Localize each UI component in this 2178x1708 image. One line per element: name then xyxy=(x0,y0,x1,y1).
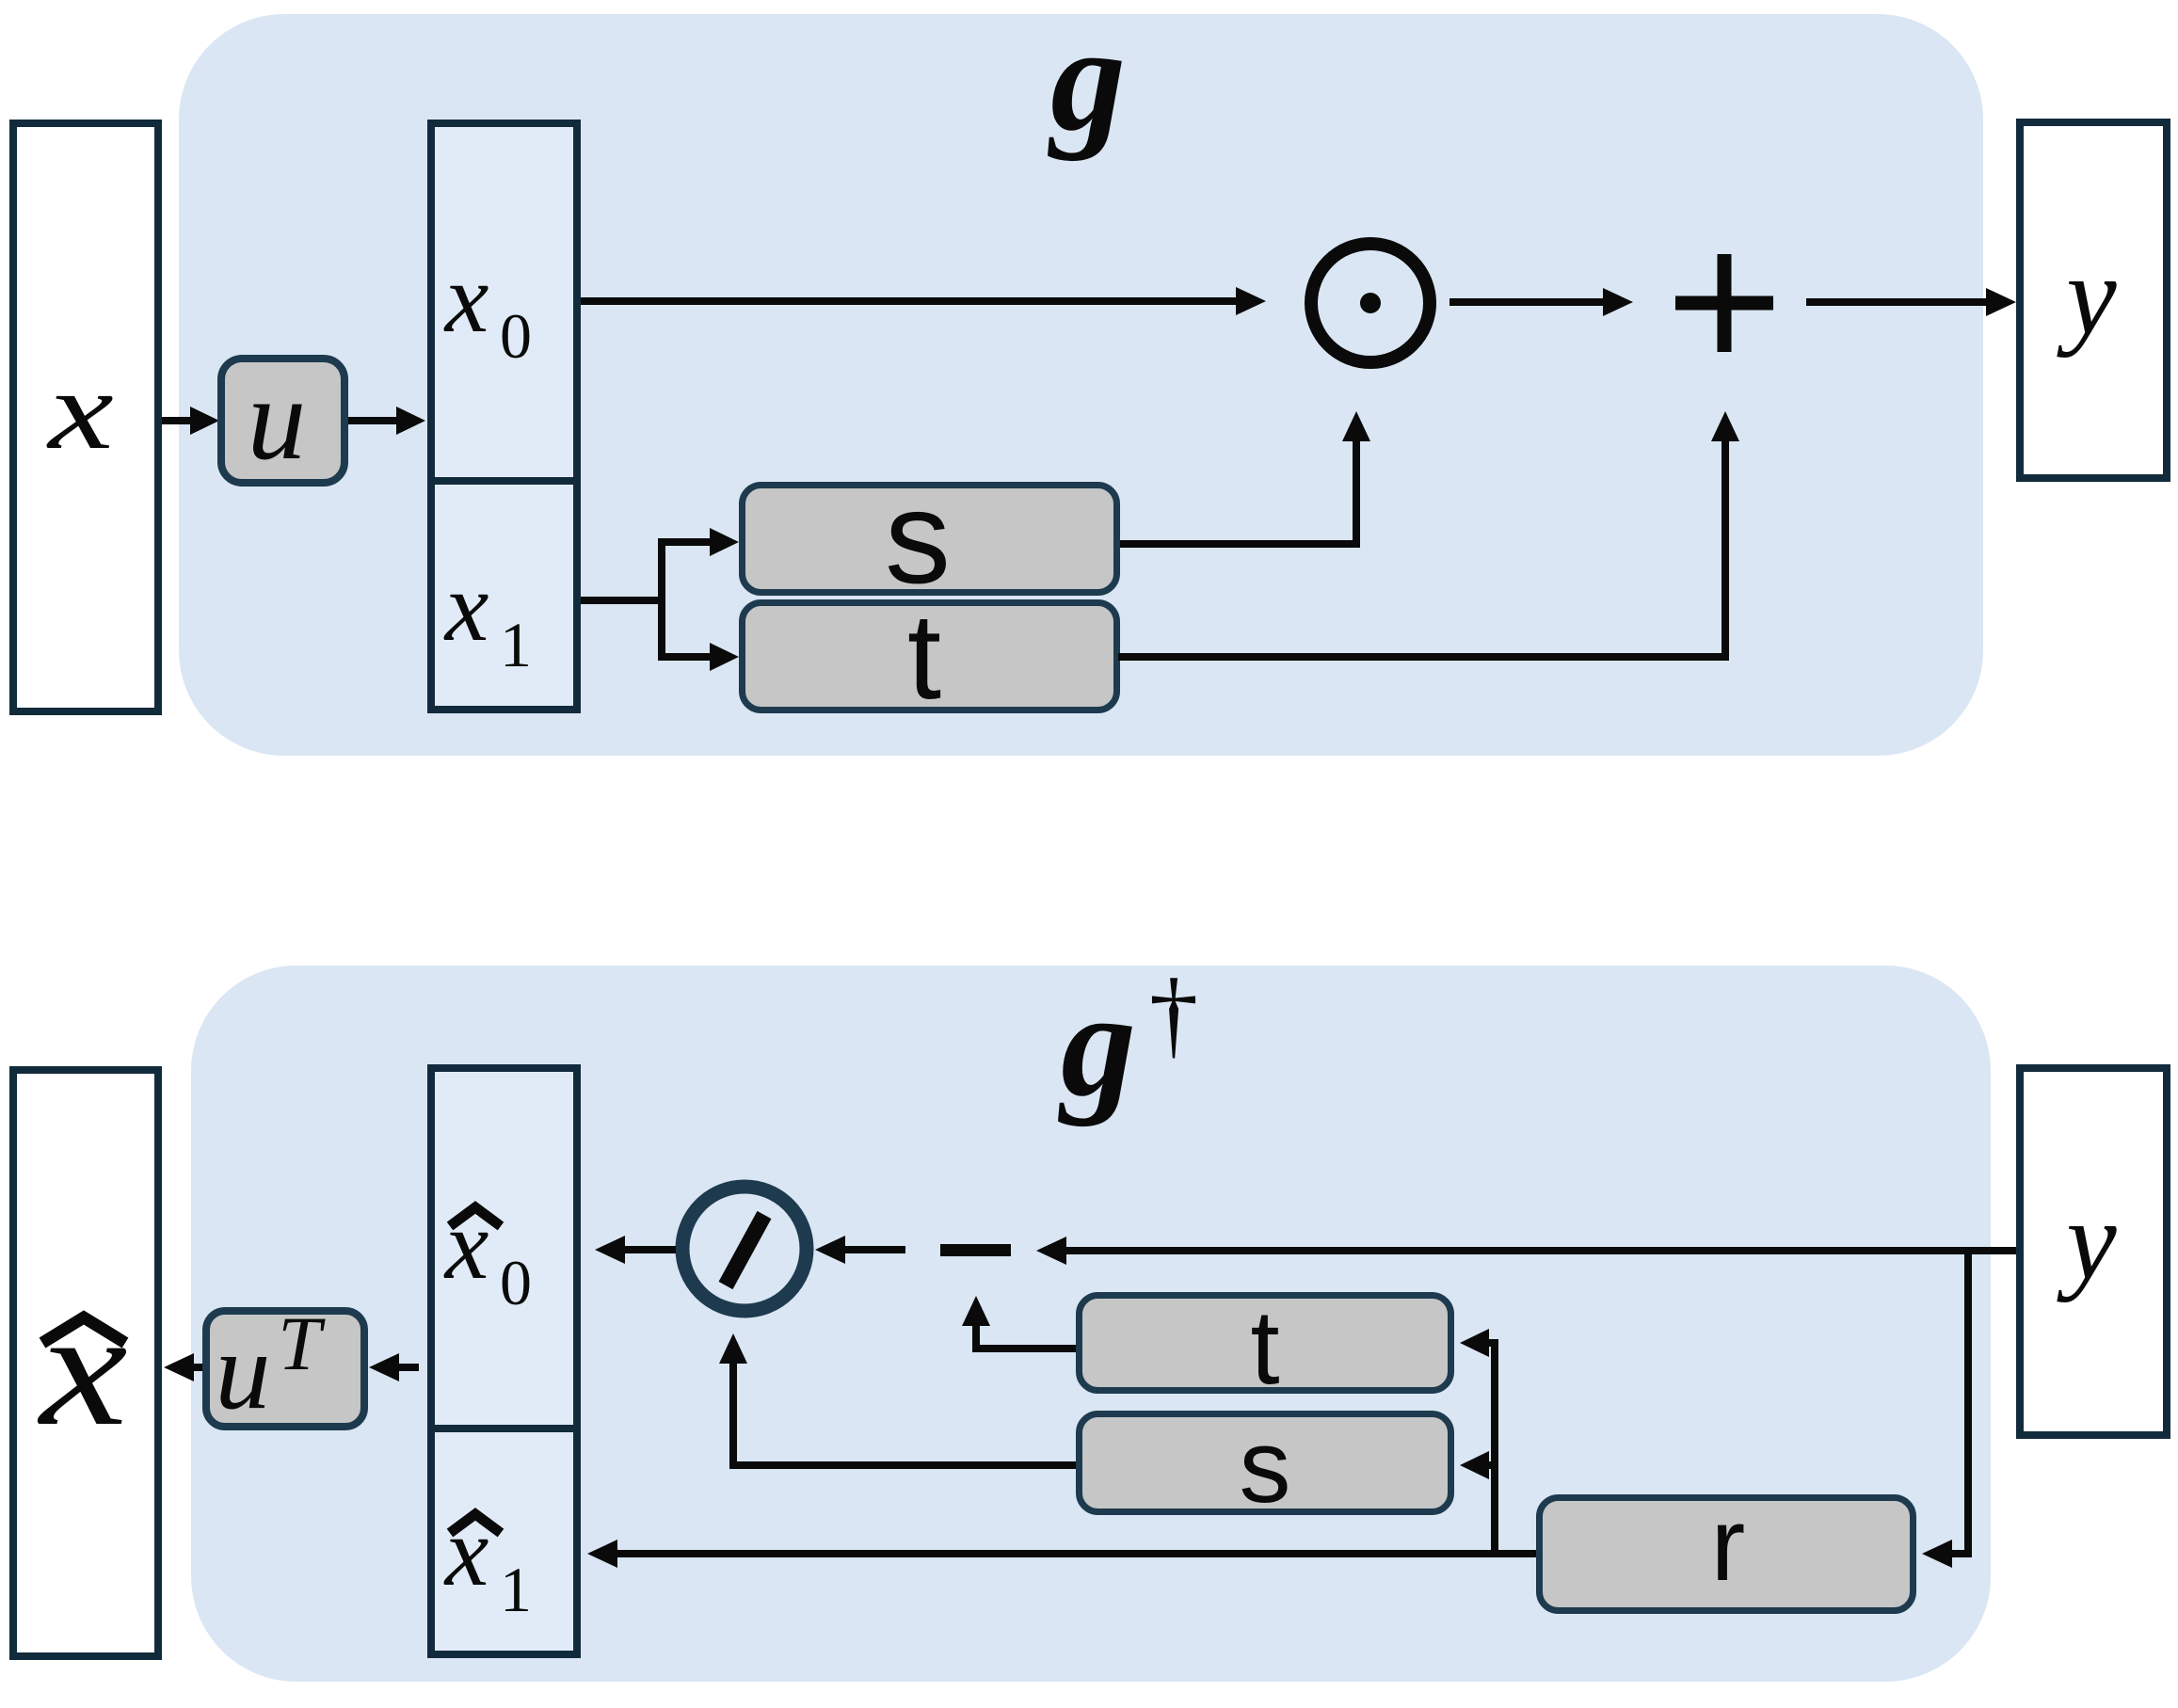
input vector y box bottom xyxy=(2020,1068,2167,1435)
unitary matrix u box xyxy=(221,359,344,483)
svg-text:x: x xyxy=(443,1189,489,1300)
output vector y box xyxy=(2020,122,2167,478)
element-wise multiply symbol xyxy=(1311,244,1430,362)
svg-text:0: 0 xyxy=(500,300,532,372)
svg-text:x: x xyxy=(443,243,489,353)
split vector x-hat0/x-hat1 box xyxy=(431,1068,577,1654)
svg-text:s: s xyxy=(1240,1409,1291,1524)
label x-hat xyxy=(42,1317,125,1343)
scale network s box inverse xyxy=(1080,1414,1451,1512)
input vector x box xyxy=(13,123,158,711)
add symbol xyxy=(1675,296,1773,311)
wire x to u xyxy=(162,417,193,424)
wire y to minus xyxy=(1066,1247,2016,1254)
svg-text:1: 1 xyxy=(500,1554,532,1625)
wire x0 to multiply xyxy=(581,297,1236,305)
wire multiply to add xyxy=(1449,298,1603,306)
svg-text:t: t xyxy=(907,587,941,725)
wire uT to x-hat xyxy=(192,1364,202,1371)
wire divide to x-hat0 xyxy=(625,1246,676,1253)
stub into s xyxy=(1487,1461,1498,1469)
divide symbol xyxy=(682,1187,807,1311)
wire split to uT xyxy=(399,1364,419,1371)
svg-text:x: x xyxy=(46,348,113,473)
wire t to minus riser xyxy=(972,1345,1076,1352)
svg-text:r: r xyxy=(1711,1487,1746,1603)
svg-text:T: T xyxy=(278,1301,326,1386)
divider between x0 and x1 xyxy=(427,477,581,485)
svg-text:g: g xyxy=(1058,960,1136,1127)
svg-text:u: u xyxy=(216,1309,271,1432)
svg-text:t: t xyxy=(1250,1288,1279,1406)
svg-text:x: x xyxy=(37,1277,127,1460)
wire u to split vector xyxy=(348,417,398,424)
wire minus to divide xyxy=(845,1246,905,1253)
split vector x0/x1 box xyxy=(431,123,577,710)
inverse coupling block g-dagger container xyxy=(191,966,1991,1682)
output vector x-hat box xyxy=(13,1070,158,1656)
wire s to multiply xyxy=(1120,540,1360,548)
svg-text:x: x xyxy=(443,1496,489,1606)
label x-hat1 xyxy=(450,1514,501,1533)
wire branch to t xyxy=(662,653,711,661)
label x-hat0 xyxy=(450,1207,501,1226)
svg-text:g: g xyxy=(1048,0,1126,162)
transpose matrix uT box xyxy=(206,1311,364,1427)
svg-text:u: u xyxy=(248,355,307,485)
wire s to divide riser xyxy=(729,1461,1076,1469)
minus symbol xyxy=(940,1244,1011,1256)
junction drop from y line to r xyxy=(1964,1251,1972,1557)
wire add to y xyxy=(1806,298,1986,306)
svg-text:x: x xyxy=(443,551,489,662)
divider between x-hat0 and x-hat1 xyxy=(427,1425,581,1432)
recover network r box xyxy=(1540,1498,1914,1611)
translate network t box inverse xyxy=(1080,1296,1451,1391)
riser from r line feeding t and s xyxy=(1491,1339,1498,1557)
wire t to add xyxy=(1118,653,1729,661)
scale network s box xyxy=(743,486,1117,593)
branch vertical xyxy=(658,538,665,661)
forward coupling block g container xyxy=(179,14,1983,756)
svg-text:0: 0 xyxy=(500,1247,532,1318)
svg-text:1: 1 xyxy=(500,609,532,680)
translate network t box xyxy=(743,603,1117,710)
stub into t xyxy=(1487,1339,1498,1347)
wire r to x-hat1 xyxy=(617,1550,1536,1557)
wire branch to s xyxy=(662,538,711,546)
wire x1 to branch xyxy=(581,597,665,604)
svg-text:†: † xyxy=(1149,958,1199,1068)
